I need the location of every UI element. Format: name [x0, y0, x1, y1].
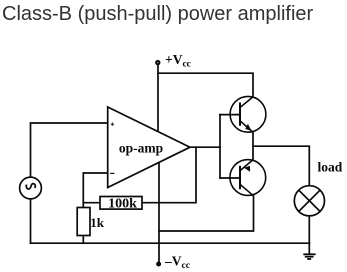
svg-text:op-amp: op-amp — [119, 141, 163, 156]
wire: load bottom to ground — [308, 216, 310, 254]
op-amp U1 — [108, 107, 190, 188]
wire: inverting input vertical and to 1k top — [83, 173, 107, 208]
wire: 1k bottom to bus — [82, 236, 84, 244]
wire: bottom ground bus — [31, 242, 310, 244]
Q2 emitter arrow — [245, 166, 250, 171]
Q1 emitter arrow — [246, 124, 251, 130]
wire: +Vcc terminal down to op-amp top — [157, 65, 159, 132]
wire: Q2 collector to -Vcc line — [159, 196, 254, 231]
ground symbol — [303, 254, 315, 259]
op-amp - input mark — [110, 172, 114, 174]
svg-text:1k: 1k — [90, 215, 105, 230]
wire: bases bar vertical — [219, 115, 221, 178]
svg-text:100k: 100k — [108, 197, 137, 212]
wire: feedback tap from output — [142, 147, 196, 203]
wire: +Vcc rail to Q1 collector — [158, 73, 253, 97]
svg-text:load: load — [318, 160, 343, 175]
transistor Q1 (NPN, top) — [230, 96, 266, 132]
AC source — [20, 177, 42, 199]
wire: Q1 base — [220, 114, 239, 116]
wire: emitters junction vertical — [252, 132, 254, 160]
title text — [2, 3, 313, 26]
wire: source bottom to ground bus — [30, 199, 32, 243]
svg-text:+Vcc: +Vcc — [165, 52, 191, 70]
+Vcc terminal — [156, 61, 160, 65]
wire: mid node to load — [253, 146, 309, 185]
resistor 1k — [77, 208, 105, 236]
wire: 100k to inverting junction — [83, 202, 100, 204]
-Vcc terminal — [157, 262, 161, 266]
op-amp + input mark — [111, 122, 115, 126]
wire: -Vcc vertical from op-amp bottom — [158, 162, 160, 263]
transistor Q2 (PNP, bottom) — [230, 160, 266, 196]
wire: Q2 base — [220, 177, 239, 179]
load lamp — [294, 186, 324, 216]
wire: source top to op-amp + input — [31, 123, 108, 177]
svg-text:–Vcc: –Vcc — [164, 254, 190, 272]
wire: op-amp output to bases bar — [190, 146, 220, 148]
resistor 100k — [100, 197, 142, 212]
